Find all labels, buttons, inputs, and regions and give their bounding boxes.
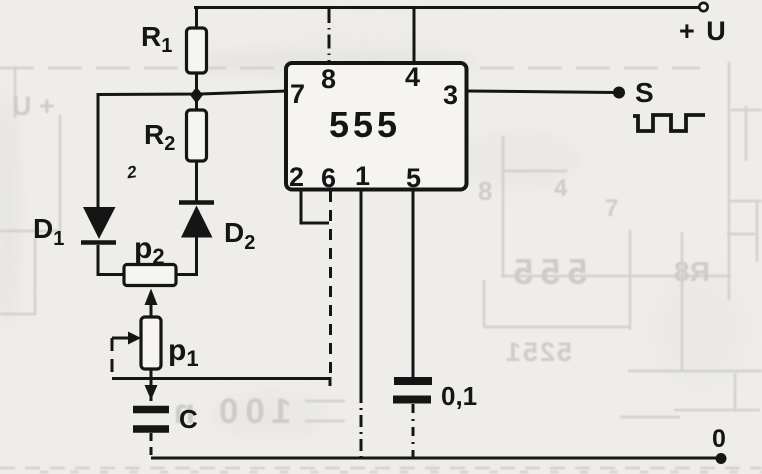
wire: pin 6 dashed down — [329, 191, 332, 377]
svg-text:5: 5 — [406, 163, 421, 193]
square wave symbol — [633, 115, 705, 131]
diode D2 cathode bar — [179, 200, 214, 205]
svg-text:2: 2 — [289, 162, 304, 192]
svg-text:R8: R8 — [674, 256, 710, 287]
capacitor C bottom plate — [133, 425, 169, 433]
wire: pin 3 to S terminal — [467, 91, 616, 93]
wire: pin 4 from top rail — [413, 7, 416, 63]
svg-text:S: S — [635, 77, 654, 108]
wire: 0,1 capacitor to 0 rail (dash-dot) — [412, 404, 415, 457]
wire: junction to pin 7 and down-left to D1 — [98, 91, 287, 207]
wire: +U top supply rail — [194, 6, 699, 9]
capacitor 0,1 bottom plate — [393, 396, 431, 404]
svg-text:C: C — [179, 404, 198, 434]
terminal S (filled dot) — [613, 87, 625, 99]
svg-text:3: 3 — [443, 80, 458, 110]
wire: junction to R2 — [195, 98, 198, 111]
terminal 0 (filled dot) — [716, 453, 727, 464]
wire: pin 8 dash-dot from top rail — [328, 9, 331, 62]
op IC 555 U1 body — [286, 63, 467, 190]
svg-text:8: 8 — [321, 64, 336, 94]
svg-text:0: 0 — [712, 425, 726, 453]
wire: pin 5 down to 0,1 capacitor — [412, 189, 415, 378]
capacitor C top plate — [133, 406, 169, 414]
svg-text:555: 555 — [506, 251, 587, 292]
potentiometer P2 wiper arrow — [145, 289, 158, 318]
wire: dash-dot down to C — [150, 394, 153, 406]
svg-text:0,1: 0,1 — [441, 381, 477, 411]
wire: D2 anode to P2 right terminal — [176, 237, 197, 275]
diode D2 (pointing up) — [181, 206, 213, 238]
diode D1 (pointing down) — [83, 207, 116, 239]
svg-text:7: 7 — [605, 195, 618, 222]
wire: R1 bottom to junction — [195, 73, 198, 95]
wire: P1 wiper bypass (dashed) — [111, 338, 114, 378]
wire: pin 1 dash-dot to 0 rail — [360, 391, 363, 457]
wire: P1 bottom stem — [150, 369, 153, 387]
terminal +U (open circle) — [699, 3, 707, 11]
wire: D1 cathode to P2 left terminal — [98, 245, 124, 275]
svg-text:1: 1 — [355, 161, 370, 191]
wire: C to 0 rail (dash-dot) — [150, 433, 153, 457]
wire: top rail down to R1 — [195, 7, 198, 30]
svg-text:555: 555 — [329, 104, 401, 145]
wire: bypass bottom horizontal to pin 6 net — [112, 379, 330, 387]
potentiometer P1 body — [141, 317, 161, 369]
resistor R2 — [187, 110, 207, 161]
svg-text:U +: U + — [12, 91, 55, 121]
svg-text:4: 4 — [554, 175, 568, 202]
svg-text:+ U: + U — [679, 16, 728, 46]
capacitor 0,1 top plate — [394, 377, 432, 385]
wire: pin 2 stub joining pin 6 net — [301, 189, 329, 223]
svg-text:7: 7 — [290, 79, 305, 109]
diode D1 cathode bar — [81, 240, 116, 245]
arrow at P1 bottom toward C — [145, 385, 158, 400]
svg-text:5251: 5251 — [504, 337, 572, 367]
resistor R1 — [187, 28, 207, 73]
0 V bottom rail — [151, 457, 722, 460]
svg-text:6: 6 — [321, 163, 336, 193]
potentiometer P2 body — [124, 265, 176, 286]
potentiometer P1 wiper arrow — [112, 332, 141, 345]
wire: pin 1 down — [360, 189, 363, 391]
wire: R2 bottom to D2 cathode — [195, 161, 198, 201]
svg-text:4: 4 — [405, 62, 420, 92]
junction node (R1/R2/pin7 net) — [190, 87, 203, 104]
svg-text:8: 8 — [478, 176, 492, 206]
